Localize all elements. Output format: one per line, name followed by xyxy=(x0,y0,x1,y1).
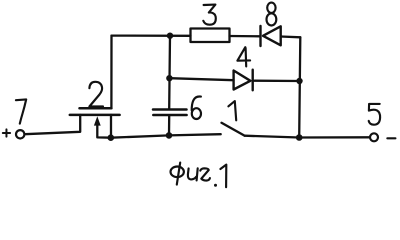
wire diode 8 to right corner xyxy=(281,35,301,38)
label 4 xyxy=(237,47,250,66)
diode 8 triangle xyxy=(263,26,281,45)
caption digit 1 xyxy=(220,165,226,188)
wire gate riser xyxy=(110,36,112,108)
label 3 xyxy=(203,5,216,25)
wire resistor to diode 8 xyxy=(230,35,261,38)
node dot transistor drain xyxy=(108,134,115,141)
transistor 2 channel line xyxy=(70,114,120,117)
transistor 2 substrate arrowhead xyxy=(94,116,101,125)
wire top rail left xyxy=(112,34,191,37)
node dot top rail x170 xyxy=(167,33,173,39)
transistor 2 gate line xyxy=(80,107,112,110)
diode 8 cathode bar xyxy=(259,26,261,46)
minus sign xyxy=(387,137,395,139)
transistor 2 drain leg xyxy=(110,115,112,138)
transistor 2 substrate arrow lead xyxy=(97,122,111,138)
switch 1 blade xyxy=(222,123,245,136)
node dot mid line x299 xyxy=(296,78,302,84)
label 7 xyxy=(16,99,26,123)
label 2 xyxy=(89,82,103,107)
label 8 top ring xyxy=(267,3,275,13)
wire right vertical xyxy=(299,37,300,137)
caption period xyxy=(214,184,217,187)
label 6 xyxy=(192,96,201,110)
wire mid line left xyxy=(170,78,234,80)
wire diode 4 to right vertical xyxy=(253,80,300,83)
resistor 3 body xyxy=(191,29,230,43)
wire capacitor to rail xyxy=(168,116,170,135)
caption letter u xyxy=(188,168,198,180)
caption letter F xyxy=(171,167,184,178)
node dot bottom right xyxy=(296,134,303,141)
terminal 7 circle xyxy=(16,130,24,138)
label 1 xyxy=(228,101,236,120)
label 5 xyxy=(369,104,380,125)
label 8 bottom ring xyxy=(267,13,277,25)
capacitor 6 top plate xyxy=(153,108,187,111)
plus sign xyxy=(3,132,10,134)
wire switch to terminal 5 xyxy=(245,136,370,138)
caption letter g xyxy=(200,168,210,180)
node dot capacitor bottom xyxy=(166,132,173,139)
wire left mid vertical xyxy=(168,36,171,109)
terminal 5 circle xyxy=(370,133,378,141)
diode 4 triangle xyxy=(234,71,251,90)
capacitor 6 bottom plate xyxy=(153,114,186,117)
wire bottom rail to switch xyxy=(111,134,221,138)
diode 4 cathode bar xyxy=(251,70,253,91)
wire terminal 7 to transistor source xyxy=(25,115,80,134)
node dot mid line x169 xyxy=(166,75,172,81)
